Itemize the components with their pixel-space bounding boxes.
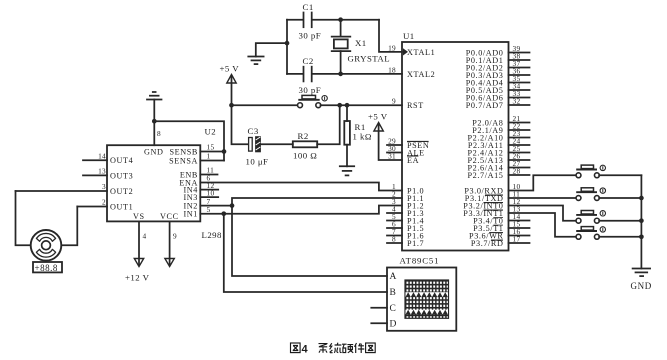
glyph 图 (second) [366, 343, 376, 353]
svg-text:4: 4 [302, 344, 309, 356]
svg-text:1 kΩ: 1 kΩ [353, 132, 372, 142]
wire K1 to bus [599, 174, 641, 176]
svg-text:RST: RST [407, 101, 424, 110]
motor display +88.8 [33, 262, 62, 273]
wire R1 bottom to ground [346, 145, 348, 167]
wire C3 to R2 [261, 143, 293, 145]
U2 pin 8 GND stub up [154, 100, 161, 146]
U1 pins 39-32 P0.0/AD0-P0.7/AD7 labels [466, 48, 504, 110]
glyph 硬 [342, 344, 353, 353]
pushbutton reset indicator [322, 96, 327, 101]
svg-text:19: 19 [388, 43, 396, 52]
svg-text:GND: GND [631, 281, 652, 291]
svg-text:8: 8 [157, 129, 161, 138]
svg-text:4: 4 [143, 232, 147, 241]
wire K2 to bus [599, 197, 641, 199]
wire pin8 to SENS riser [154, 121, 224, 160]
svg-text:SENSA: SENSA [169, 156, 198, 165]
wire RST line right segment to pin 9 [321, 104, 403, 106]
resistor R1 1k [344, 121, 372, 145]
U1 P3.4-P3.7 stubs [509, 221, 530, 244]
svg-text:9: 9 [392, 97, 396, 106]
svg-text:GRYSTAL: GRYSTAL [348, 54, 391, 64]
wire corner down to XTAL1 [379, 20, 402, 52]
U1 pins 21-28 P2.0/A8-P2.7/A15 labels [468, 118, 504, 180]
svg-text:28: 28 [513, 166, 521, 175]
power +5V (EA) [368, 112, 388, 132]
node R2 riser junction [337, 103, 342, 108]
IC U2 L298 body [107, 127, 222, 241]
svg-text:U1: U1 [403, 31, 415, 41]
pushbutton K4 [576, 227, 605, 240]
svg-text:C3: C3 [248, 126, 259, 136]
U1 P2 stubs pins 21-28 [509, 114, 530, 175]
svg-text:13: 13 [98, 167, 106, 176]
pushbutton K1 [576, 165, 605, 178]
pushbutton K2 [576, 188, 605, 201]
svg-text:P2.7/A15: P2.7/A15 [468, 171, 504, 180]
svg-text:D: D [390, 320, 397, 330]
svg-text:VCC: VCC [160, 212, 179, 221]
svg-text:OUT3: OUT3 [110, 171, 133, 180]
svg-text:OUT4: OUT4 [110, 156, 133, 165]
node ground tap [285, 41, 290, 46]
power +5V (reset) [220, 64, 240, 84]
node IN2 junction [230, 203, 235, 208]
svg-text:EA: EA [407, 156, 419, 165]
keypad D stub [371, 322, 387, 324]
svg-text:100 Ω: 100 Ω [293, 150, 317, 160]
node SENSB junction [222, 149, 227, 154]
svg-text:C2: C2 [303, 56, 314, 66]
wire to crystal ground [256, 43, 287, 56]
U2 pin 1 SENSA stub [200, 152, 224, 161]
resistor R2 100ohm [293, 131, 317, 161]
svg-text:32: 32 [513, 96, 521, 105]
pushbutton reset cap [298, 95, 319, 99]
motor M wires left [16, 191, 31, 245]
svg-text:U2: U2 [205, 127, 217, 137]
ground (buttons) GND [631, 269, 652, 292]
svg-text:X1: X1 [355, 38, 367, 48]
svg-text:P0.7/AD7: P0.7/AD7 [466, 101, 504, 110]
U2 pin 2 OUT1 wire [77, 198, 107, 207]
node bus K4 [639, 234, 644, 239]
svg-text:R2: R2 [298, 131, 309, 141]
wire left vertical C1-C2 [286, 20, 288, 74]
node bus K3 [639, 218, 644, 223]
U1 pin 29 PSEN stub [387, 136, 429, 150]
svg-text:+12 V: +12 V [125, 272, 150, 282]
wire C2 left [287, 73, 303, 75]
svg-text:14: 14 [98, 152, 106, 161]
wire RST line left segment [232, 104, 298, 106]
svg-text:2: 2 [102, 198, 106, 207]
wire IN1 to P1.2 [224, 206, 402, 214]
svg-text:C: C [390, 304, 397, 314]
U2 pin 14 OUT4 stub [83, 152, 107, 161]
svg-text:B: B [390, 288, 397, 298]
keypad display matrix [405, 280, 449, 318]
node IN1 junction [221, 211, 226, 216]
U1 pin 31 EA [388, 151, 419, 165]
svg-text:VS: VS [133, 212, 145, 221]
wire K3 to bus [599, 220, 641, 222]
node pin8/sense junction [152, 119, 157, 124]
svg-text:L298: L298 [202, 230, 223, 240]
wire K4 to bus [599, 236, 641, 238]
wire P3.1 to button K2 [509, 197, 577, 199]
svg-text:18: 18 [388, 65, 396, 74]
U1 pin 18 XTAL2 [388, 65, 435, 79]
pushbutton reset contact right [316, 103, 321, 108]
svg-text:5: 5 [207, 205, 211, 214]
svg-text:OUT1: OUT1 [110, 202, 133, 211]
wire C1 right to corner [313, 19, 379, 21]
svg-text:9: 9 [173, 232, 177, 241]
svg-text:XTAL1: XTAL1 [407, 48, 435, 57]
U1 pins 1-8 P1.0-P1.7 labels [392, 182, 424, 248]
wire P3.0 to button K1 [509, 175, 577, 190]
node bus K2 [639, 196, 644, 201]
U2 pin 12 IN4 stub [200, 181, 218, 190]
capacitor C3 10uF electrolytic [246, 126, 269, 167]
ground (R1) [340, 166, 354, 175]
U2 pin 7 IN2 stub [200, 197, 232, 206]
glyph 图 [291, 343, 301, 353]
U1 pins 10-17 P3.0-P3.7 labels [463, 182, 520, 248]
capacitor C1 30pF [299, 2, 322, 41]
wire P3.2 to button K3 [509, 206, 577, 221]
U2 pin 13 OUT3 stub [83, 167, 107, 176]
U1 P1.3-P1.7 stubs [387, 213, 402, 243]
U1 P0 stubs pins 39-32 [509, 44, 530, 106]
svg-text:31: 31 [388, 151, 396, 160]
crystal X1 GRYSTAL [332, 20, 390, 74]
svg-text:XTAL2: XTAL2 [407, 70, 435, 79]
U2 pin 3 OUT2 wire to motor [16, 182, 108, 191]
caption 图4 系统硬件图 [291, 343, 376, 356]
ground (U2 pin8) flipped [147, 92, 162, 100]
U2 pin 5 IN1 stub [200, 205, 224, 214]
node R1 junction [345, 103, 350, 108]
motor M [31, 230, 62, 261]
wire IN2 down to keypad A [232, 206, 387, 276]
svg-text:+5 V: +5 V [220, 64, 240, 74]
svg-text:+5 V: +5 V [368, 112, 388, 122]
svg-text:10 μF: 10 μF [246, 156, 269, 166]
IC U1 AT89C51 body [400, 31, 509, 266]
keypad C stub [371, 307, 387, 309]
motor M wires right [61, 207, 77, 246]
U2 pin 15 SENSB stub [200, 143, 224, 152]
pushbutton K3 [576, 211, 605, 224]
svg-text:3: 3 [102, 182, 106, 191]
svg-text:C1: C1 [303, 2, 314, 12]
U1 pin 30 ALE stub [387, 144, 425, 158]
svg-text:AT89C51: AT89C51 [400, 256, 440, 266]
svg-text:30 pF: 30 pF [299, 31, 322, 41]
wire IN2 to P1.1 [232, 198, 402, 206]
svg-text:+88.8: +88.8 [35, 263, 58, 273]
capacitor C2 30pF [299, 56, 322, 95]
svg-text:OUT2: OUT2 [110, 187, 133, 196]
wire C1 left to left vertical [287, 19, 303, 21]
keypad box [387, 268, 456, 331]
U2 pin 9 VCC down arrow [165, 221, 177, 266]
svg-text:15: 15 [207, 143, 215, 152]
wire C2 right to XTAL2 [313, 73, 402, 75]
wire +5V to EA pin 31 [379, 124, 402, 160]
wire button bus vertical [640, 175, 642, 268]
svg-text:IN1: IN1 [183, 210, 198, 219]
svg-text:GND: GND [144, 147, 164, 156]
wire IN1 down to keypad B [224, 214, 387, 292]
svg-text:P1.7: P1.7 [407, 239, 424, 248]
U2 pin 6 ENA wire to P1.0 [200, 174, 402, 191]
node crystal top [338, 17, 343, 22]
wire +5V down to C3 corner [232, 76, 249, 144]
U2 internal labels [110, 147, 198, 221]
node crystal bottom [338, 72, 343, 77]
svg-text:A: A [390, 272, 397, 282]
wire P3.3 to button K4 [509, 213, 577, 237]
wire R2 right to RST line [317, 105, 340, 144]
svg-text:30 pF: 30 pF [299, 85, 322, 95]
pushbutton reset contact left [298, 103, 303, 108]
glyph 统 [330, 343, 342, 353]
ground (crystal caps) [248, 57, 263, 65]
glyph 系 [319, 344, 328, 353]
U1 pin 9 RST [392, 97, 424, 110]
U2 pin 11 ENB stub [200, 166, 217, 175]
wire R1 top [346, 105, 348, 121]
glyph 件 [355, 343, 365, 353]
U2 pin 10 IN3 stub [200, 188, 218, 197]
U2 pin 4 VS down arrow +12V [125, 221, 150, 282]
svg-text:1: 1 [207, 152, 211, 161]
svg-text:SENSB: SENSB [170, 147, 198, 156]
node RST/+5V junction [229, 103, 234, 108]
U1 pin 19 XTAL1 [388, 43, 435, 57]
svg-text:R1: R1 [355, 122, 366, 132]
